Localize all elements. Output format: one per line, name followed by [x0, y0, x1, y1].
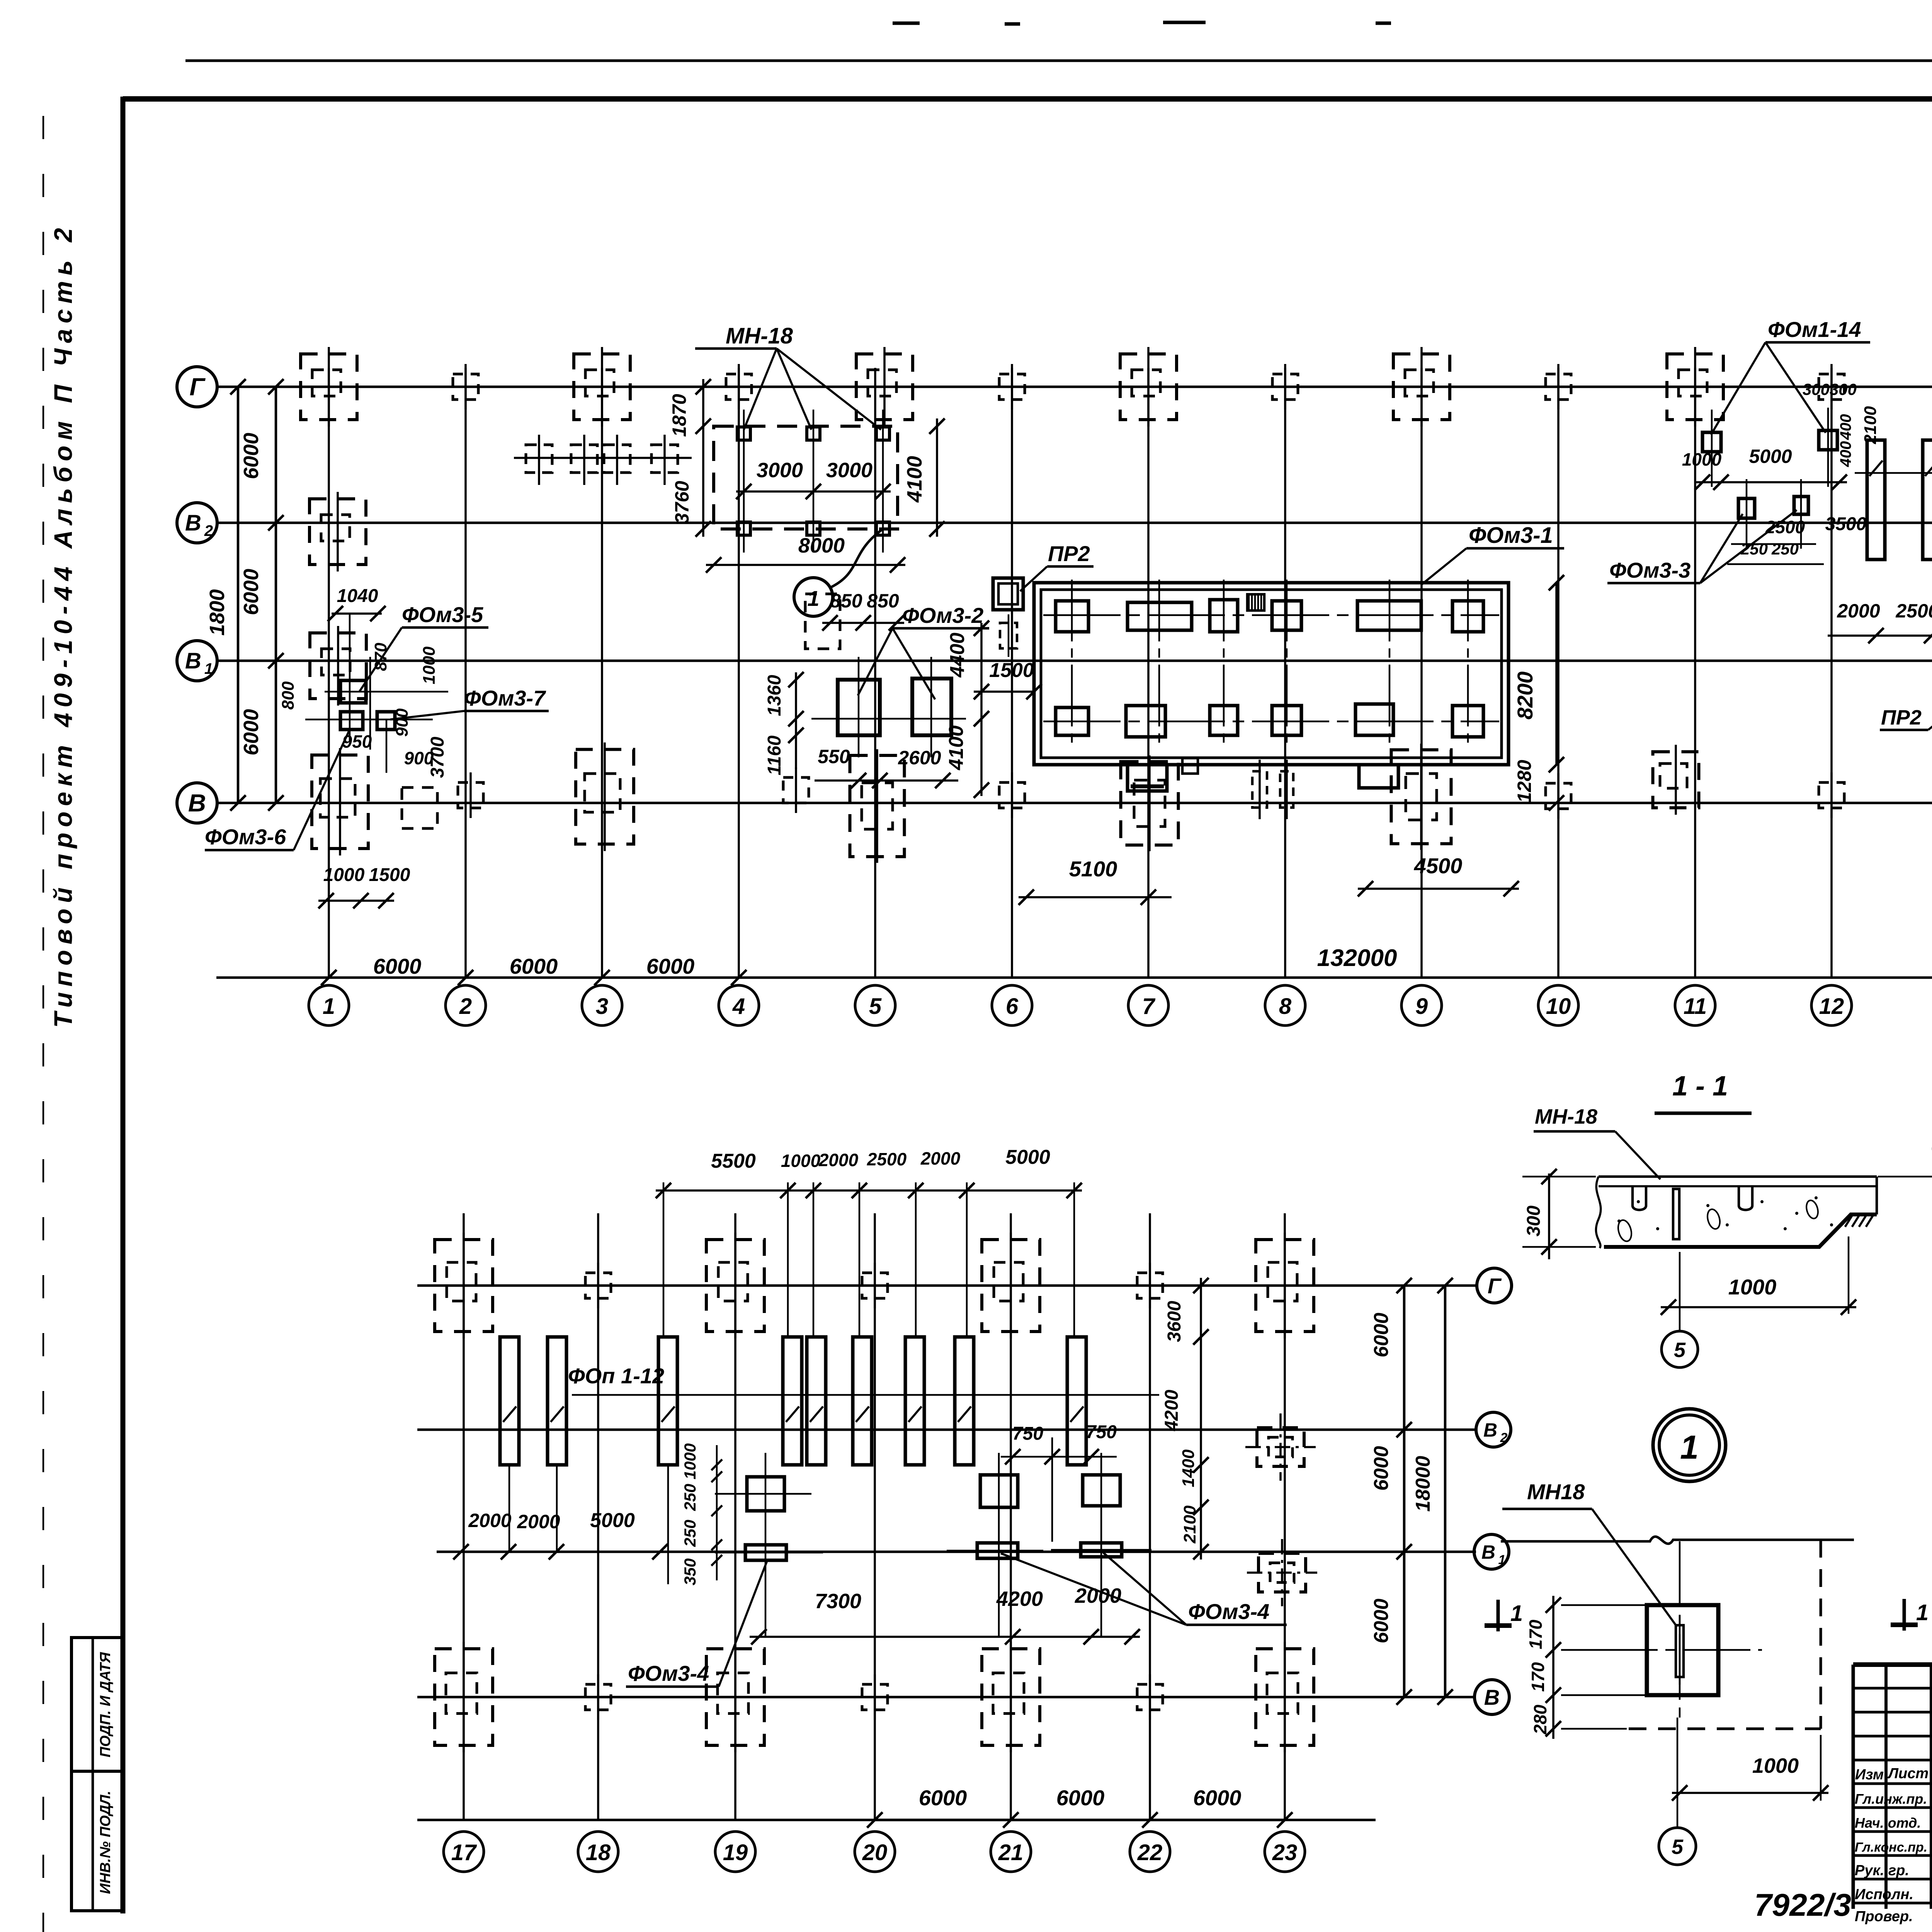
svg-text:1870: 1870	[668, 394, 690, 437]
plan1 big dashed foundation axis1 row V2	[310, 499, 366, 565]
svg-text:5000: 5000	[590, 1509, 635, 1532]
plan1 small dashed symbol axis6 row V	[999, 782, 1025, 808]
plan1 foundation pit dashed axis5 row V	[850, 755, 905, 857]
svg-text:8000: 8000	[798, 534, 845, 557]
svg-text:9: 9	[1415, 994, 1428, 1019]
plan2 axis line 17	[463, 1213, 465, 1821]
svg-text:20: 20	[862, 1840, 888, 1865]
plan2 axis circle 21	[991, 1832, 1031, 1872]
svg-text:4400: 4400	[946, 633, 969, 678]
MN-18 dashed foundation outline	[714, 426, 898, 529]
title block vertical line col List	[1930, 1665, 1932, 1909]
svg-text:5500: 5500	[711, 1150, 756, 1172]
svg-text:6000: 6000	[240, 433, 263, 479]
title block vertical line col Izm	[1884, 1665, 1888, 1909]
svg-text:Исполн.: Исполн.	[1855, 1886, 1913, 1903]
svg-text:ФОм3-2: ФОм3-2	[902, 603, 983, 628]
plan1 axis line 9	[1420, 368, 1423, 978]
plan1 axis circle 10	[1538, 985, 1578, 1026]
svg-text:МН18: МН18	[1527, 1480, 1585, 1504]
svg-text:Гл.инж.пр.: Гл.инж.пр.	[1855, 1791, 1927, 1807]
plan1 bottom tie dimension line 132000	[216, 976, 1932, 979]
svg-text:МН-18: МН-18	[726, 323, 793, 349]
plan2 FOm3-4 upper block 2	[980, 1475, 1018, 1507]
svg-text:2000: 2000	[818, 1150, 859, 1170]
FOm1-14 block A	[1702, 432, 1721, 452]
svg-text:2600: 2600	[898, 747, 941, 769]
svg-text:1360: 1360	[764, 675, 785, 716]
plan2 big dashed foundation axis 21 row G	[982, 1240, 1040, 1332]
plan1 foundation pit dashed axis7 row V	[1121, 762, 1179, 845]
svg-text:21: 21	[998, 1840, 1024, 1865]
FOm-12 precast bars row	[1867, 440, 1885, 560]
plan2 axis line G	[417, 1284, 1476, 1287]
svg-text:В: В	[185, 510, 201, 536]
MN-18 vertical dim 4100	[936, 418, 938, 537]
plan2 axis circle 18	[578, 1832, 618, 1872]
plan1 column symbol (small dashed) axis 2 row G	[453, 374, 478, 400]
plan2 dim line on V1	[453, 1544, 469, 1560]
plan1 big dashed foundation axis3 row V	[576, 750, 634, 844]
svg-text:132000: 132000	[1317, 945, 1397, 971]
svg-text:1500: 1500	[989, 659, 1034, 682]
plan2 dim line below blocks	[750, 1636, 1140, 1638]
svg-text:280: 280	[1530, 1704, 1550, 1735]
svg-text:6000: 6000	[240, 709, 263, 755]
detail mark big double circle 1	[1653, 1409, 1726, 1481]
svg-text:6000: 6000	[1056, 1786, 1105, 1810]
plan1 axis circle V	[177, 783, 217, 823]
svg-text:1000: 1000	[1682, 449, 1722, 469]
svg-text:5: 5	[869, 994, 882, 1019]
plan1 axis circle 4	[719, 985, 759, 1026]
svg-text:10: 10	[1546, 994, 1571, 1019]
plan2 small dashed symbol axis 22 row G	[1137, 1273, 1163, 1298]
svg-text:12: 12	[1819, 994, 1844, 1019]
plan2 bottom tie line	[417, 1819, 1376, 1821]
section mark 1 left of detail	[1485, 1623, 1512, 1628]
svg-text:В: В	[1484, 1685, 1500, 1709]
FOm3-2 foundation block left	[838, 680, 880, 735]
svg-text:7: 7	[1142, 994, 1156, 1019]
plan2 top dim line	[656, 1189, 1082, 1192]
svg-text:250: 250	[681, 1484, 699, 1511]
svg-text:1: 1	[323, 994, 335, 1019]
plan2 big dashed foundation axis 21 row V	[982, 1649, 1040, 1745]
plan1 tiny brackets axis8 row V	[1252, 771, 1267, 808]
svg-text:ФОм3-6: ФОм3-6	[205, 825, 286, 849]
plan2 FOm3-4 strip 3	[1081, 1543, 1122, 1557]
plan2 blocks horiz extension lines	[715, 1493, 811, 1495]
svg-text:ФОм3-7: ФОм3-7	[464, 686, 546, 710]
MN-18 anchor bolt square	[807, 427, 820, 440]
svg-text:2000: 2000	[1837, 600, 1880, 622]
svg-text:250: 250	[1740, 540, 1768, 558]
plan2 axis circle 20	[855, 1832, 895, 1872]
svg-text:17: 17	[451, 1840, 477, 1865]
svg-text:3500: 3500	[1825, 514, 1867, 534]
side stamp box Podp i data	[71, 1638, 123, 1771]
plan2 blocks centerlines	[765, 1453, 767, 1637]
svg-text:400: 400	[1837, 414, 1854, 440]
plan1 axis circle 1	[309, 985, 349, 1026]
FOm3-5 foundation block	[340, 680, 366, 703]
plan1 big dashed foundation axis11 row V	[1653, 752, 1699, 808]
MN-18 anchor bolt square	[876, 522, 889, 535]
plan2 axis line 21	[1010, 1213, 1012, 1821]
detail MN18 dashed boundary bottom	[1629, 1728, 1821, 1730]
svg-text:950: 950	[342, 731, 372, 752]
svg-text:1: 1	[204, 660, 213, 677]
plan1 axis line 3	[601, 368, 603, 978]
plan2 big dashed foundation axis 23 row V	[1256, 1649, 1314, 1745]
svg-text:Гл.конс.пр.: Гл.конс.пр.	[1855, 1840, 1927, 1855]
plan1 axis line 5	[874, 368, 876, 978]
plan1 column symbol (small dashed) axis 12 row G	[1819, 374, 1844, 400]
plan2 axis circle 19	[715, 1832, 755, 1872]
svg-text:870: 870	[371, 643, 390, 671]
svg-text:1000: 1000	[420, 646, 439, 684]
plan1 left dim line 6000s	[275, 387, 277, 803]
svg-text:1: 1	[1916, 1600, 1929, 1625]
section 1-1 right edge	[1876, 1177, 1878, 1214]
PR2 slab symbol near axis 6	[993, 578, 1023, 610]
svg-text:ПР2: ПР2	[1881, 706, 1922, 729]
plan2 FOm3-4 upper block 1	[747, 1477, 784, 1511]
svg-text:2500: 2500	[867, 1149, 907, 1169]
plan1 column foundation (big dashed) axis 7 row G	[1120, 354, 1177, 420]
svg-text:Провер.: Провер.	[1855, 1908, 1913, 1925]
svg-text:6000: 6000	[373, 954, 422, 978]
svg-text:Г: Г	[189, 373, 206, 401]
sheet top edge thin line	[185, 60, 1932, 62]
plan2 small dashed symbol axis 22 row V	[1137, 1684, 1163, 1710]
plan2 big dashed foundation axis 19 row G	[706, 1240, 764, 1332]
plan1 big dashed foundation axis1 row V1	[310, 633, 366, 699]
svg-text:6000: 6000	[510, 954, 558, 978]
svg-text:МН-18: МН-18	[1535, 1105, 1597, 1128]
plan2 bars centerlines down	[509, 1465, 510, 1552]
plan2 top dim extension lines	[663, 1182, 665, 1337]
plan1 axis circle 7	[1128, 985, 1168, 1026]
svg-text:ФОм3-5: ФОм3-5	[402, 602, 483, 627]
plan2 double dashed square axis23 row V2	[1257, 1428, 1304, 1466]
building bottom notch right	[1359, 765, 1398, 788]
side stamp inner line	[92, 1638, 94, 1911]
svg-text:ФОм3-4: ФОм3-4	[628, 1661, 709, 1685]
svg-text:2: 2	[204, 522, 213, 539]
plan1 column symbol (small dashed) axis 6 row G	[999, 374, 1025, 400]
plan2 axis circle V1	[1474, 1534, 1509, 1569]
svg-text:800: 800	[279, 681, 298, 710]
svg-text:2100: 2100	[1180, 1505, 1199, 1544]
svg-text:550: 550	[818, 746, 850, 767]
plan2 right vertical dims 3600 4200 1400 2100	[1200, 1278, 1202, 1560]
svg-text:ФОм3-1: ФОм3-1	[1469, 523, 1553, 548]
section 1-1 ground hatch right	[1845, 1214, 1853, 1227]
svg-text:850: 850	[867, 590, 899, 612]
plan1 small dashed symbol axis12 row V	[1819, 782, 1844, 808]
building inner equip bottom row	[1056, 707, 1088, 735]
svg-text:11: 11	[1684, 994, 1707, 1019]
svg-text:1: 1	[1510, 1601, 1523, 1626]
plan2 axis line 23	[1284, 1213, 1286, 1821]
svg-text:8: 8	[1279, 994, 1292, 1019]
svg-text:300: 300	[1524, 1206, 1544, 1236]
MN-18 anchor centerlines	[743, 410, 745, 553]
svg-text:6000: 6000	[240, 569, 263, 615]
plan1 axis line 1	[328, 368, 330, 978]
svg-text:6000: 6000	[1370, 1313, 1393, 1357]
section mark 1 right of detail	[1891, 1622, 1918, 1627]
section 1-1 title underline	[1655, 1112, 1752, 1115]
svg-text:19: 19	[723, 1840, 748, 1865]
building FOm3-1 outer wall	[1034, 583, 1509, 765]
plan1 column foundation (big dashed) axis 1 row G	[301, 354, 357, 420]
plan1 axis circle G	[177, 367, 217, 407]
plan2 axis circle G	[1477, 1268, 1512, 1303]
plan1 column foundation (big dashed) axis 3 row G	[574, 354, 630, 420]
MN-18 dim line 8000	[706, 564, 905, 566]
svg-text:5: 5	[1674, 1338, 1686, 1362]
plan1 axis circle 8	[1265, 985, 1305, 1026]
svg-text:5000: 5000	[1005, 1146, 1050, 1168]
svg-text:6000: 6000	[646, 954, 695, 978]
svg-text:300: 300	[1830, 380, 1857, 398]
svg-text:3760: 3760	[671, 481, 693, 524]
plan2 big dashed foundation axis 19 row V	[706, 1649, 764, 1745]
svg-text:2000: 2000	[517, 1511, 560, 1532]
plan1 left dim line 18000	[237, 387, 240, 803]
svg-text:170: 170	[1526, 1619, 1546, 1649]
row of small foundation squares with crosses	[514, 457, 692, 459]
scan artifact dashes top	[893, 22, 920, 25]
plan2 axis circle V	[1475, 1680, 1509, 1714]
building bottom notch left	[1128, 765, 1167, 791]
plan1 axis circle 5	[855, 985, 895, 1026]
svg-text:1800: 1800	[206, 589, 229, 636]
plan2 axis line 20	[874, 1213, 876, 1821]
svg-text:5: 5	[1672, 1835, 1684, 1859]
title block left border	[1852, 1665, 1855, 1909]
svg-text:Изм: Изм	[1855, 1767, 1884, 1783]
svg-text:2: 2	[459, 994, 472, 1019]
svg-text:1000: 1000	[1752, 1754, 1799, 1777]
plan2 double dashed square axis23 row V1	[1259, 1553, 1306, 1592]
building equip centerlines	[1071, 580, 1073, 748]
plan1 axis line 11	[1694, 368, 1696, 978]
MN-18 anchor bolt square	[737, 522, 750, 535]
svg-text:6000: 6000	[1193, 1786, 1242, 1810]
svg-text:1500: 1500	[369, 865, 410, 885]
plan1 axis line 4	[738, 368, 740, 978]
svg-text:1000: 1000	[1728, 1275, 1777, 1299]
svg-text:6000: 6000	[919, 1786, 967, 1810]
plan1 axis circle 6	[992, 985, 1032, 1026]
plan1 axis circle 9	[1401, 985, 1442, 1026]
svg-text:В: В	[1483, 1419, 1497, 1441]
svg-text:5000: 5000	[1749, 446, 1792, 467]
plan2 axis line 18	[597, 1213, 599, 1821]
plan2 FOm3-4 upper block 3	[1083, 1475, 1120, 1506]
svg-text:Г: Г	[1488, 1274, 1502, 1298]
plan2 axis circle 23	[1265, 1832, 1305, 1872]
svg-text:1160: 1160	[764, 735, 785, 776]
svg-text:1040: 1040	[337, 586, 378, 606]
svg-text:350: 350	[681, 1558, 699, 1585]
plan1 axis circle V2	[177, 503, 217, 543]
svg-text:170: 170	[1528, 1662, 1548, 1692]
plan1 column foundation (big dashed) axis 9 row G	[1393, 354, 1450, 420]
building hatched small block	[1247, 594, 1264, 611]
svg-text:1000: 1000	[323, 865, 365, 885]
svg-text:1: 1	[1498, 1553, 1506, 1567]
MN-18 anchor bolt square	[737, 427, 750, 440]
svg-text:3600: 3600	[1164, 1301, 1185, 1342]
cluster dim line 1000 1500 below	[318, 900, 394, 902]
svg-text:8200: 8200	[1513, 672, 1537, 720]
svg-text:1400: 1400	[1179, 1449, 1198, 1487]
svg-text:ИНВ.№ ПОДЛ.: ИНВ.№ ПОДЛ.	[97, 1791, 114, 1894]
detail mark circle 1 with wavy leader	[794, 578, 833, 616]
plan2 small dashed symbol axis 20 row G	[862, 1273, 888, 1298]
FOm3-7 foundation blocks	[340, 712, 363, 730]
title block top border	[1853, 1662, 1932, 1667]
svg-text:2500: 2500	[1895, 600, 1932, 622]
svg-text:1 - 1: 1 - 1	[1672, 1071, 1728, 1102]
svg-text:900: 900	[393, 708, 412, 737]
svg-text:5100: 5100	[1069, 857, 1117, 881]
svg-text:22: 22	[1137, 1840, 1163, 1865]
MN-18 dim line 3000 3000	[736, 490, 891, 493]
plan1 small dashed symbol axis4 row V	[783, 777, 809, 803]
svg-text:4: 4	[732, 994, 745, 1019]
svg-text:18: 18	[586, 1840, 611, 1865]
plan2 axis circle 17	[444, 1832, 484, 1872]
plan1 axis line 8	[1284, 368, 1286, 978]
plan2 axis line V	[417, 1696, 1476, 1699]
svg-text:2500: 2500	[1765, 517, 1805, 537]
svg-text:ФОм1-14: ФОм1-14	[1768, 317, 1861, 342]
plan1 axis line 12	[1830, 368, 1833, 978]
FOm3-3 centerlines	[1746, 479, 1748, 549]
FOp1-12 precast bars row plan2	[500, 1337, 519, 1465]
FOm3-2 centerlines	[858, 657, 860, 757]
section 1-1 anchor channels	[1633, 1186, 1646, 1210]
detail MN18 centerline vertical	[1679, 1541, 1681, 1718]
building bottom small brackets	[1182, 758, 1198, 774]
svg-text:7922/3: 7922/3	[1754, 1888, 1851, 1923]
plan1 axis circle 11	[1675, 985, 1715, 1026]
svg-text:ПР2: ПР2	[1048, 541, 1090, 566]
plan1 small dashed symbol axis10 row V	[1546, 783, 1571, 809]
MN-18 left dims 1870 3760	[702, 379, 704, 537]
plan2 big dashed foundation axis 17 row G	[435, 1240, 493, 1332]
svg-text:ФОм3-3: ФОм3-3	[1609, 558, 1690, 582]
svg-text:Рук. гр.: Рук. гр.	[1855, 1862, 1909, 1879]
svg-text:3000: 3000	[826, 459, 872, 482]
plan2 small dashed symbol axis 20 row V	[862, 1684, 888, 1710]
detail MN18 axis circle 5	[1659, 1828, 1696, 1865]
plan1 column symbol (small dashed) axis 4 row G	[726, 374, 752, 400]
svg-text:1000: 1000	[781, 1151, 821, 1171]
detail MN18 foundation square	[1647, 1605, 1718, 1695]
title block left table row lines	[1853, 1687, 1932, 1690]
plan2 right dim line 6000s	[1403, 1286, 1406, 1697]
svg-text:В: В	[1481, 1541, 1495, 1563]
plan1 axis line G	[216, 386, 1932, 388]
FOm3-3 block B	[1794, 497, 1808, 514]
plan1 axis line V2	[216, 522, 1932, 524]
detail MN18 centerline horizontal	[1592, 1649, 1762, 1651]
cluster extension lines	[305, 719, 433, 721]
plan1 column foundation (big dashed) axis 11 row G	[1667, 354, 1723, 420]
frame top thick border	[123, 96, 1932, 102]
plan1 axis line 6	[1011, 368, 1013, 978]
FOm-12 leader line across bars	[1855, 472, 1932, 474]
section 1-1 slab bottom with ramp	[1604, 1214, 1877, 1247]
section 1-1 axis mark circle 5	[1662, 1331, 1698, 1367]
svg-text:750: 750	[1012, 1423, 1043, 1444]
section 1-1 slab top lines	[1599, 1175, 1877, 1178]
svg-text:2000: 2000	[1075, 1584, 1121, 1607]
plan2 right dim line 18000	[1444, 1286, 1447, 1697]
plan1 column symbol (small dashed) axis 10 row G	[1546, 374, 1571, 400]
svg-text:3: 3	[596, 994, 608, 1019]
plan2 small dashed symbol axis 18 row G	[585, 1273, 611, 1298]
section 1-1 MN-18 plate	[1673, 1189, 1679, 1239]
detail MN18 dim line left	[1552, 1596, 1554, 1739]
plan2 big dashed foundation axis 17 row V	[435, 1649, 493, 1745]
side stamp box Inv No podl	[71, 1771, 123, 1911]
svg-text:6000: 6000	[1370, 1599, 1393, 1643]
svg-text:1280: 1280	[1514, 760, 1535, 803]
svg-text:400: 400	[1837, 441, 1854, 468]
plan1 column symbol (small dashed) axis 8 row G	[1272, 374, 1298, 400]
detail MN18 top line with break	[1501, 1537, 1854, 1544]
plan1 big dashed foundation axis1 row V	[312, 755, 368, 849]
svg-text:ПОДП. И ДАТЯ: ПОДП. И ДАТЯ	[97, 1652, 114, 1757]
svg-text:750: 750	[1086, 1422, 1117, 1442]
svg-text:4100: 4100	[903, 456, 926, 503]
svg-text:1000: 1000	[681, 1443, 699, 1479]
svg-text:3000: 3000	[757, 459, 803, 482]
svg-text:4100: 4100	[945, 725, 968, 770]
svg-text:В: В	[188, 789, 206, 817]
svg-text:В: В	[185, 648, 201, 673]
section 1-1 concrete dots and ovals	[1617, 1219, 1621, 1223]
detail MN18 plate symbol	[1676, 1625, 1684, 1677]
MN-18 anchor bolt square	[807, 522, 820, 535]
plan2 big dashed foundation axis 23 row G	[1256, 1240, 1314, 1332]
svg-text:ФОм3-4: ФОм3-4	[1188, 1599, 1269, 1624]
plan1 axis circle 12	[1811, 985, 1852, 1026]
svg-text:Нач. отд.: Нач. отд.	[1855, 1815, 1921, 1831]
plan1 axis circle 3	[582, 985, 622, 1026]
plan2 axis line 22	[1149, 1213, 1151, 1821]
FOm3-2 dashed bracket above	[805, 594, 840, 649]
plan2 axis line 19	[734, 1213, 736, 1821]
svg-text:6000: 6000	[1370, 1446, 1393, 1491]
PR2 small bracket below	[1000, 623, 1017, 648]
plan2 axis circle V2	[1476, 1412, 1511, 1447]
plan1 axis line 10	[1557, 368, 1560, 978]
building inner equip top row	[1056, 601, 1088, 632]
svg-text:2: 2	[1500, 1430, 1508, 1445]
plan1 axis line V1	[216, 660, 1932, 662]
svg-text:250: 250	[1771, 540, 1799, 558]
svg-text:2000: 2000	[468, 1510, 511, 1531]
